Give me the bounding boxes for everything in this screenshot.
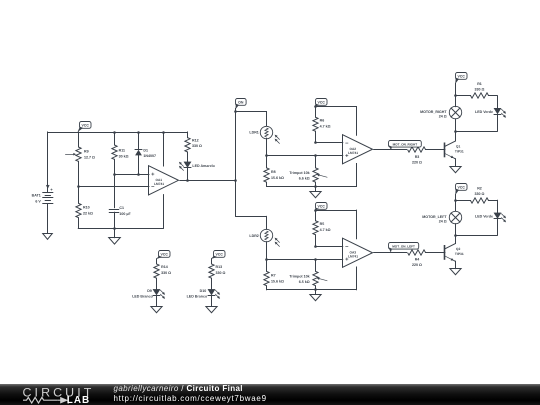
svg-text:LED Branco: LED Branco [187, 294, 208, 298]
resistor R8 15.6 kOhm [264, 156, 284, 187]
svg-text:24 Ω: 24 Ω [439, 115, 447, 119]
svg-text:VCC: VCC [458, 186, 466, 190]
node LDR2/R7 junction [265, 258, 268, 261]
wire - input OA3 [315, 246, 343, 248]
svg-text:220 Ω: 220 Ω [412, 263, 422, 267]
svg-text:BAT1: BAT1 [32, 194, 41, 198]
ground D9 branch [151, 307, 162, 313]
svg-text:6.6 kΩ: 6.6 kΩ [299, 177, 310, 181]
svg-text:15.6 kΩ: 15.6 kΩ [271, 176, 284, 180]
wire OA1 V- supply [163, 195, 165, 229]
svg-text:LDR2: LDR2 [249, 234, 258, 238]
wire bottom rail OA3 section [267, 289, 357, 291]
node Q1 collector junction [454, 130, 457, 133]
battery BAT1 6 V [32, 132, 54, 233]
svg-text:330 Ω: 330 Ω [475, 192, 485, 196]
wire OA3 V- supply [356, 267, 358, 290]
wire LDR1 bottom [266, 138, 268, 155]
resistor R2 330 Ohm [455, 187, 497, 204]
ground below C1 [109, 238, 121, 245]
svg-text:4.7 kΩ: 4.7 kΩ [320, 228, 331, 232]
svg-text:LED Verde: LED Verde [475, 215, 493, 219]
net flag ON [236, 99, 247, 109]
lamp MOTOR_LEFT 24 Ohm [422, 211, 461, 223]
wire VCC to OA2 supply [315, 107, 357, 136]
svg-text:R14: R14 [161, 265, 168, 269]
svg-text:R3: R3 [415, 155, 420, 159]
wire OA1 V+ supply [162, 131, 165, 166]
wire + input OA3 [267, 259, 343, 261]
node motor right top [454, 94, 457, 97]
wire top rail left section [48, 132, 187, 134]
svg-text:330 Ω: 330 Ω [161, 271, 171, 275]
svg-text:D1: D1 [143, 148, 148, 152]
power flag VCC D10 branch [211, 251, 225, 259]
power flag VCC left [78, 122, 91, 132]
resistor R13 330 Ohm [209, 259, 226, 290]
trimpot Trimpot 10k 6.6 kOhm upper [289, 156, 327, 187]
wire LDR2 bottom [266, 242, 268, 259]
lamp MOTOR_RIGHT 24 Ohm [420, 106, 462, 118]
resistor R12 330 Ohm [185, 132, 202, 162]
svg-text:6.5 kΩ: 6.5 kΩ [299, 280, 310, 284]
svg-text:LED Branco: LED Branco [132, 294, 153, 298]
svg-text:LED Amarelo: LED Amarelo [192, 164, 215, 168]
svg-text:100 µF: 100 µF [119, 212, 131, 216]
op-amp OA3 LM741 [343, 238, 373, 267]
node trimpot1 bottom junction [314, 185, 317, 188]
node D1 top junction [137, 131, 140, 134]
svg-text:R2: R2 [477, 187, 482, 191]
ground D10 branch [206, 307, 217, 313]
svg-text:R7: R7 [271, 274, 276, 278]
svg-text:R10: R10 [83, 206, 90, 210]
photoresistor LDR1 [249, 126, 279, 143]
power flag VCC D9 branch [157, 251, 170, 259]
wire VCC to OA3 supply [315, 210, 357, 239]
node OA1 output to ON bus [234, 179, 237, 182]
svg-text:R12: R12 [192, 138, 199, 142]
transistor Q1 TIP31 [445, 141, 464, 159]
svg-text:C1: C1 [119, 206, 124, 210]
svg-text:LM741: LM741 [348, 254, 358, 258]
ground battery [43, 234, 53, 240]
node trimpot2 top junction [314, 258, 317, 261]
wire ON to LDR1 [236, 112, 267, 126]
svg-text:330 Ω: 330 Ω [475, 88, 485, 92]
wire - input OA2 [315, 142, 343, 144]
resistor R4 220 Ohm [408, 250, 445, 267]
photoresistor LDR2 [249, 229, 279, 246]
wire bottom rail OA2 section [267, 186, 357, 188]
svg-text:TIP31: TIP31 [455, 150, 464, 154]
node C1 bottom junction [113, 227, 116, 230]
wire to ground OA3 section [315, 290, 317, 295]
LED Verde left [475, 213, 506, 235]
svg-text:Trimpot 10k: Trimpot 10k [289, 275, 309, 279]
ground OA2 section [310, 192, 321, 198]
wire Q1 collector [455, 131, 457, 141]
svg-text:330 Ω: 330 Ω [192, 144, 202, 148]
svg-text:ON: ON [238, 101, 244, 105]
node R6 bottom junction [314, 141, 317, 144]
wire OA2 V- supply [356, 164, 358, 187]
node Q2 collector junction [454, 234, 457, 237]
node R5 bottom junction [314, 245, 317, 248]
capacitor C1 100 uF [109, 206, 131, 228]
svg-text:LAB: LAB [67, 395, 90, 405]
svg-text:D9: D9 [147, 289, 152, 293]
wire Q1 emitter to ground [455, 159, 457, 166]
ground OA3 section [310, 295, 321, 301]
wire - input OA1 [78, 186, 149, 188]
svg-text:22 kΩ: 22 kΩ [83, 212, 93, 216]
node ON tee junction [234, 110, 237, 113]
wire R2 to LED Verde left [497, 200, 499, 213]
resistor R7 15.6 kOhm [264, 259, 284, 290]
svg-text:4.7 kΩ: 4.7 kΩ [320, 124, 331, 128]
svg-text:12.7 Ω: 12.7 Ω [84, 155, 95, 159]
svg-text:LED Verde: LED Verde [475, 110, 493, 114]
svg-text:15.6 kΩ: 15.6 kΩ [271, 279, 284, 283]
ground Q1 [450, 167, 461, 173]
power flag VCC motor right [455, 73, 467, 84]
node R11 top junction [113, 131, 116, 134]
wire OA1 output [180, 180, 236, 182]
svg-text:MOT_ON_RIGHT: MOT_ON_RIGHT [393, 142, 418, 146]
svg-text:R8: R8 [271, 170, 276, 174]
svg-text:VCC: VCC [458, 75, 466, 79]
svg-text:6 V: 6 V [35, 199, 41, 203]
wire + input OA2 [267, 155, 343, 157]
svg-text:VCC: VCC [318, 101, 326, 105]
svg-text:R1: R1 [477, 82, 482, 86]
wire bottom rail left section [78, 228, 163, 230]
svg-text:Q1: Q1 [456, 145, 461, 149]
wire motor right bottom [455, 119, 497, 131]
footer author line [114, 384, 267, 403]
svg-text:VCC: VCC [216, 253, 224, 257]
node D1/+ wire junction [137, 173, 140, 176]
CircuitLab logo [21, 384, 126, 405]
node R11/+ wire junction [113, 173, 116, 176]
resistor R3 220 Ohm [408, 147, 445, 165]
power flag VCC motor left [455, 184, 467, 195]
diode D1 1N4007 [135, 132, 156, 174]
wire OA2 output [374, 149, 407, 151]
resistor R10 22 kOhm [76, 186, 93, 228]
LED Verde right [475, 108, 506, 131]
LED D10 LED Branco [187, 289, 220, 306]
LED Amarelo [179, 162, 216, 181]
svg-text:220 Ω: 220 Ω [412, 161, 422, 165]
svg-text:24 Ω: 24 Ω [439, 219, 447, 223]
wire R11 to C1 [114, 174, 116, 207]
net flag MOT_ON_RIGHT [389, 141, 422, 150]
transistor Q2 TIP31 [445, 244, 464, 262]
power flag VCC OA3 [315, 203, 327, 210]
op-amp OA2 LM741 [343, 135, 373, 164]
op-amp OA1 LM741 [149, 166, 179, 195]
node R9/R10/- input junction [77, 185, 80, 188]
svg-text:Trimpot 10k: Trimpot 10k [289, 171, 309, 175]
wire + input OA1 [114, 174, 149, 176]
wire VCC to motor right node [455, 83, 457, 106]
svg-text:Q2: Q2 [456, 247, 461, 251]
svg-text:LM741: LM741 [348, 151, 358, 155]
svg-text:1N4007: 1N4007 [143, 154, 156, 158]
svg-text:TIP31: TIP31 [455, 252, 464, 256]
node LED Amarelo output junction [186, 179, 189, 182]
trimpot Trimpot 10k 6.5 kOhm lower [289, 259, 327, 290]
wire motor left bottom [455, 224, 497, 236]
svg-text:MOTOR_LEFT: MOTOR_LEFT [422, 215, 447, 219]
node trimpot2 bottom junction [314, 288, 317, 291]
svg-text:R11: R11 [119, 149, 125, 153]
wire C1 to ground [114, 228, 116, 237]
resistor R11 30 kOhm [112, 132, 129, 174]
net flag MOT_ON_LEFT [389, 243, 419, 253]
node LDR1/R8 junction [265, 154, 268, 157]
svg-text:MOTOR_RIGHT: MOTOR_RIGHT [420, 110, 447, 114]
power flag VCC OA2 [315, 99, 327, 107]
resistor R14 330 Ohm [154, 259, 171, 290]
LED D9 LED Branco [132, 289, 165, 306]
node R6 top junction [314, 105, 317, 108]
wire Q2 emitter to ground [455, 261, 457, 268]
svg-text:LM741: LM741 [154, 182, 164, 186]
wire ON bus vertical [235, 108, 237, 216]
svg-text:D10: D10 [200, 289, 207, 293]
svg-text:R6: R6 [320, 119, 325, 123]
wire OA3 output [374, 252, 407, 254]
svg-text:VCC: VCC [82, 124, 90, 128]
svg-text:R13: R13 [216, 265, 223, 269]
svg-text:LDR1: LDR1 [249, 130, 258, 134]
wire ON to LDR2 [236, 216, 267, 229]
wire VCC to motor left node [455, 195, 457, 211]
node motor left top [454, 199, 457, 202]
resistor R1 330 Ohm [455, 82, 497, 98]
wire to ground OA2 section [315, 186, 317, 191]
svg-text:MOT_ON_LEFT: MOT_ON_LEFT [392, 244, 415, 248]
svg-text:R9: R9 [84, 150, 89, 154]
node R5 top junction [314, 209, 317, 212]
svg-text:VCC: VCC [318, 205, 326, 209]
ground Q2 [450, 269, 461, 275]
wire R1 to LED Verde right [497, 96, 499, 109]
svg-text:R5: R5 [320, 222, 325, 226]
node trimpot1 top junction [314, 154, 317, 157]
svg-text:30 kΩ: 30 kΩ [119, 154, 129, 158]
resistor R6 4.7 kOhm [313, 107, 331, 143]
wire Q2 collector [455, 235, 457, 243]
svg-text:330 Ω: 330 Ω [216, 271, 226, 275]
potentiometer R9 12.7 Ohm [66, 132, 95, 186]
svg-text:VCC: VCC [161, 253, 169, 257]
svg-text:R4: R4 [415, 257, 420, 261]
resistor R5 4.7 kOhm [313, 210, 331, 246]
